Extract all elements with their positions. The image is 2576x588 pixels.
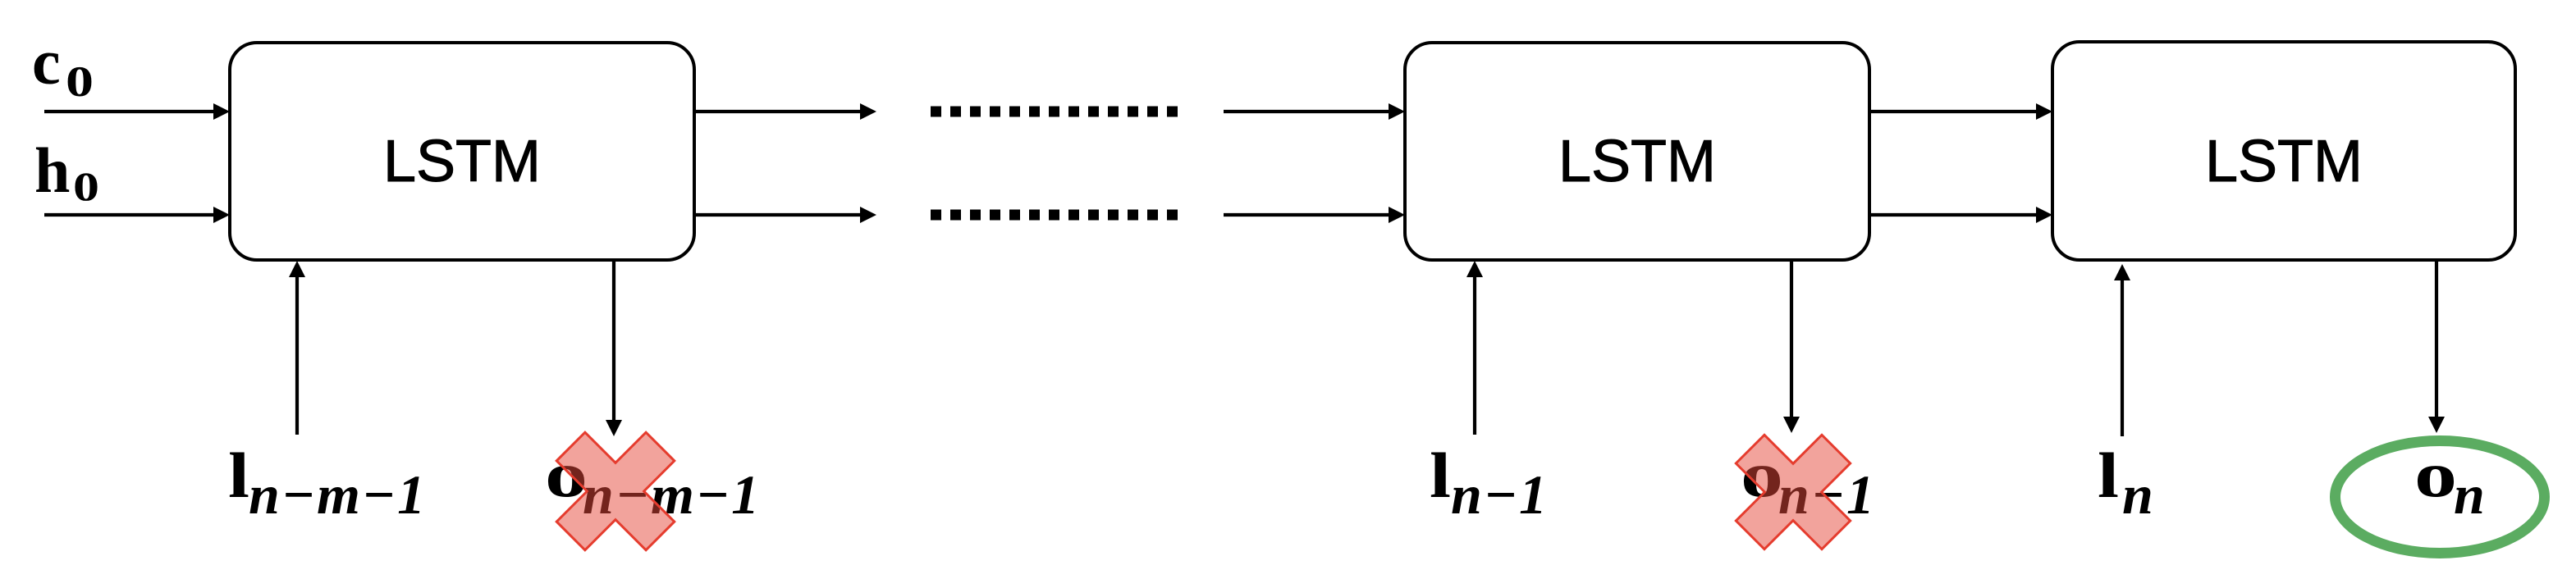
LSTM box 1 bbox=[230, 43, 694, 260]
red X over o_{n-1} bbox=[1707, 406, 1878, 577]
LSTM box 3 bbox=[2052, 42, 2515, 260]
output arrow o_n bbox=[2428, 260, 2445, 433]
svg-text:l: l bbox=[1430, 440, 1451, 511]
svg-text:c: c bbox=[32, 26, 61, 98]
dotted continuation bottom bbox=[931, 210, 1182, 221]
svg-text:0: 0 bbox=[73, 163, 99, 209]
LSTM box 2 bbox=[1405, 43, 1869, 260]
wire h into box 2 bbox=[1224, 207, 1405, 223]
wire c into box 2 bbox=[1224, 103, 1405, 120]
wire c out of box 1 bbox=[694, 103, 876, 120]
wire h box 2 to box 3 bbox=[1869, 207, 2052, 223]
wire c box 2 to box 3 bbox=[1869, 103, 2052, 120]
svg-text:LSTM: LSTM bbox=[383, 129, 541, 194]
svg-text:h: h bbox=[34, 134, 70, 206]
input arrow l_n bbox=[2114, 264, 2130, 436]
red X over o_{n-m-1} bbox=[526, 402, 705, 581]
wire h out of box 1 bbox=[694, 207, 876, 223]
svg-text:l: l bbox=[228, 440, 249, 511]
input arrow l_{n-m-1} bbox=[289, 261, 305, 435]
wire c0 into box 1 bbox=[44, 103, 230, 120]
dotted continuation top bbox=[931, 107, 1182, 117]
svg-text:LSTM: LSTM bbox=[1558, 129, 1716, 194]
svg-text:n−1: n−1 bbox=[1451, 463, 1549, 526]
svg-text:n: n bbox=[2122, 463, 2155, 526]
svg-text:0: 0 bbox=[66, 58, 94, 106]
green ellipse around o_n bbox=[2336, 441, 2545, 554]
svg-text:l: l bbox=[2098, 440, 2119, 511]
output arrow o_{n-m-1} bbox=[606, 260, 622, 436]
svg-text:n: n bbox=[2454, 463, 2487, 526]
svg-text:n−m−1: n−m−1 bbox=[249, 463, 427, 526]
output arrow o_{n-1} bbox=[1783, 260, 1800, 433]
input arrow l_{n-1} bbox=[1466, 261, 1483, 435]
svg-text:LSTM: LSTM bbox=[2205, 129, 2363, 194]
wire h0 into box 1 bbox=[44, 207, 230, 223]
svg-text:o: o bbox=[2414, 439, 2457, 510]
